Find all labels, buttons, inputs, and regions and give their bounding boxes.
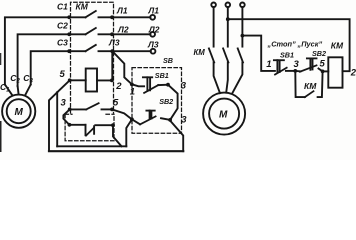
motor M1 outer circle [2,95,35,128]
motor M2 outer circle [203,93,245,135]
wire supply phase B corner to C2 terminal [18,34,70,86]
KM main contact row 3 right wire to terminal L3 [99,50,151,52]
wire motor lead C3 [25,85,31,96]
svg-text:Л1: Л1 [116,6,128,16]
node L1 [110,15,114,19]
svg-text:Л2: Л2 [117,25,129,35]
KM contact blade line 2 [223,48,228,62]
node 3 button station [166,83,170,87]
KM aux contact left wire [70,108,87,110]
supply terminal circle 2 [226,3,231,8]
svg-text:SB2: SB2 [312,49,326,58]
node SB2 right [168,118,172,122]
KM holding contact branch left vertical [295,71,305,97]
svg-text:КМ: КМ [194,48,206,57]
svg-text:SB1: SB1 [155,71,169,80]
svg-text:SB: SB [163,56,173,65]
svg-text:5: 5 [320,59,326,70]
svg-text:5: 5 [60,69,66,80]
svg-text:3: 3 [294,59,300,70]
node 1 button station [130,82,134,86]
supply line 2 lower + motor lead [226,62,228,91]
button SB1 (schematic) plunger stems [277,60,279,72]
supply line 3 upper [241,7,243,47]
svg-text:SB2: SB2 [159,97,173,106]
wire node 3 to SB2 (schematic) [295,70,300,73]
node 5 aux right [110,108,114,112]
node 3 schematic [293,69,297,73]
KM holding contact right wire [318,71,323,97]
svg-text:С1: С1 [0,82,10,94]
node C3 [67,49,71,53]
svg-text:Л2: Л2 [148,25,160,35]
node line2 branch [226,17,230,21]
button SB1 plunger stems [147,77,150,91]
node 3 left [68,108,72,112]
control wire from line 3 to node 1 [242,36,275,71]
thermal contact KK left wire [69,124,85,126]
svg-text:С2: С2 [57,21,68,31]
svg-text:Л1: Л1 [147,6,159,16]
node C2 [67,32,71,36]
svg-text:1: 1 [266,59,271,70]
motor M1 inner circle [7,99,31,123]
svg-text:2: 2 [115,81,122,92]
svg-text:„Пуск”: „Пуск” [297,40,323,49]
button SB2 (schematic) blade [300,65,317,71]
button SB1 blade [144,85,158,93]
KM main contact row 3 left wire [69,50,85,52]
KM main contact row 2 left wire [69,33,85,35]
svg-text:С3: С3 [57,37,68,47]
node SB2 left [130,117,134,121]
wire node 1 to SB1 [132,84,144,86]
svg-text:2: 2 [350,68,356,79]
wire aux right terminal 5 to button SB2 left [112,109,132,119]
wire supply phase A top-left corner to C1 terminal [5,17,69,84]
wire jog terminal 3 to thermal row [63,109,69,124]
svg-text:3: 3 [181,80,187,91]
supply line 1 lower + motor lead [214,62,220,93]
svg-text:5: 5 [113,97,119,108]
svg-text:1: 1 [130,87,135,98]
KM coil (wiring diagram) rectangle [86,69,97,92]
terminal circle L1 [150,15,155,20]
svg-text:3: 3 [181,115,187,126]
wire node 5 to coil [323,70,329,72]
KM main contact row 1 left wire [69,16,85,18]
node 5 left [68,78,72,82]
button SB2 (schematic) plunger stems [310,58,312,69]
supply line 1 upper [213,7,215,47]
svg-text:М: М [15,107,24,118]
svg-text:SB1: SB1 [280,50,294,59]
wire inner bus up to SB2 left node [126,119,132,146]
KM contact blade line 3 [238,48,243,62]
KM main contact row 1 blade [86,11,96,17]
node 2 right of coil [110,79,114,83]
KM main contact row 2 right wire to terminal L2 [99,33,151,35]
node 5 schematic [321,70,325,74]
KM holding contact blade [305,91,314,97]
outer bottom bus wire [49,150,183,152]
node KK right [111,123,115,127]
KM main contact row 1 right wire to terminal L1 [99,16,151,18]
wire motor lead C1 [5,85,13,96]
supply terminal circle 3 [240,3,245,8]
KM aux contact blade [86,103,98,109]
button station SB enclosure dashed box [132,68,182,134]
contactor KM enclosure dashed box [71,2,114,113]
button SB2 blade [140,116,156,124]
wire inner vertical to inner bottom bus [56,92,58,146]
node line3 branch [241,34,245,38]
wire motor lead C2 [18,86,19,94]
svg-text:3: 3 [61,98,67,109]
wire coil right to terminal 2 [97,79,112,81]
button SB1 (schematic) blade [275,68,287,75]
wire outer bus up to SB2 right node [170,121,183,151]
button SB1 (schematic) plunger bar [274,59,284,61]
svg-text:С3: С3 [23,73,33,85]
svg-text:Л3: Л3 [147,39,159,49]
wire outer diagonal and vertical [49,92,57,151]
wire terminal 5 to coil left [70,79,86,81]
node KK left [68,123,72,127]
svg-text:КМ: КМ [331,40,344,50]
button SB2 plunger bar [146,110,154,112]
svg-text:КМ: КМ [304,81,317,91]
wire L3 node down to coil right terminal [111,51,113,80]
supply line 2 upper [227,7,229,47]
KM contact blade line 1 [209,48,214,62]
thermal contact KK step down [85,125,87,135]
wire SB1 to node 3 (schematic) [286,70,295,72]
wire SB2 left node to blade [132,119,140,124]
terminal circle L3 [151,49,156,54]
terminal circle L2 [150,32,155,37]
svg-text:КМ: КМ [76,2,89,12]
supply terminal circle 1 (right diagram) [211,3,216,8]
thermal relay KK enclosure dashed box [65,114,114,141]
node L3 [110,49,114,53]
wire SB2 blade to node 5 [319,69,323,72]
node L2 [110,32,114,36]
button SB2 (schematic) plunger bar [307,57,317,59]
wire L3 node to button node 1 [112,51,132,84]
motor M2 inner circle [209,99,239,129]
wire terminal 5 down-left [57,80,69,92]
svg-text:Л3: Л3 [108,37,120,47]
button SB2 plunger stems [150,111,152,119]
svg-text:М: М [219,110,228,121]
wire supply phase C corner to C3 terminal [31,51,69,84]
wire thermal right terminal down to inner bus [113,125,122,146]
KM main contact row 2 blade [86,28,96,34]
thermal contact KK right wire [95,124,113,126]
thermal contact KK tick [93,126,95,134]
wire SB1 to node 3 [158,84,168,86]
node C1 [67,15,71,19]
KM aux contact right wire [102,108,113,110]
button SB1 plunger bar [143,76,152,78]
KM coil (schematic) rectangle [328,57,342,87]
wire SB2 right short [161,118,170,120]
control wire top from line 2 to node 2 [228,19,350,71]
wire node 3 bulge to SB2 right [168,85,178,120]
thermal contact KK blade [86,128,94,136]
inner bottom bus wire [57,145,126,147]
KM main contact row 3 blade [86,45,96,51]
scan artifact left edge [0,121,2,152]
supply line 3 lower + motor lead [232,62,242,93]
svg-text:С1: С1 [57,2,68,12]
svg-text:„Стоп”: „Стоп” [267,40,297,49]
svg-text:С2: С2 [10,73,20,85]
